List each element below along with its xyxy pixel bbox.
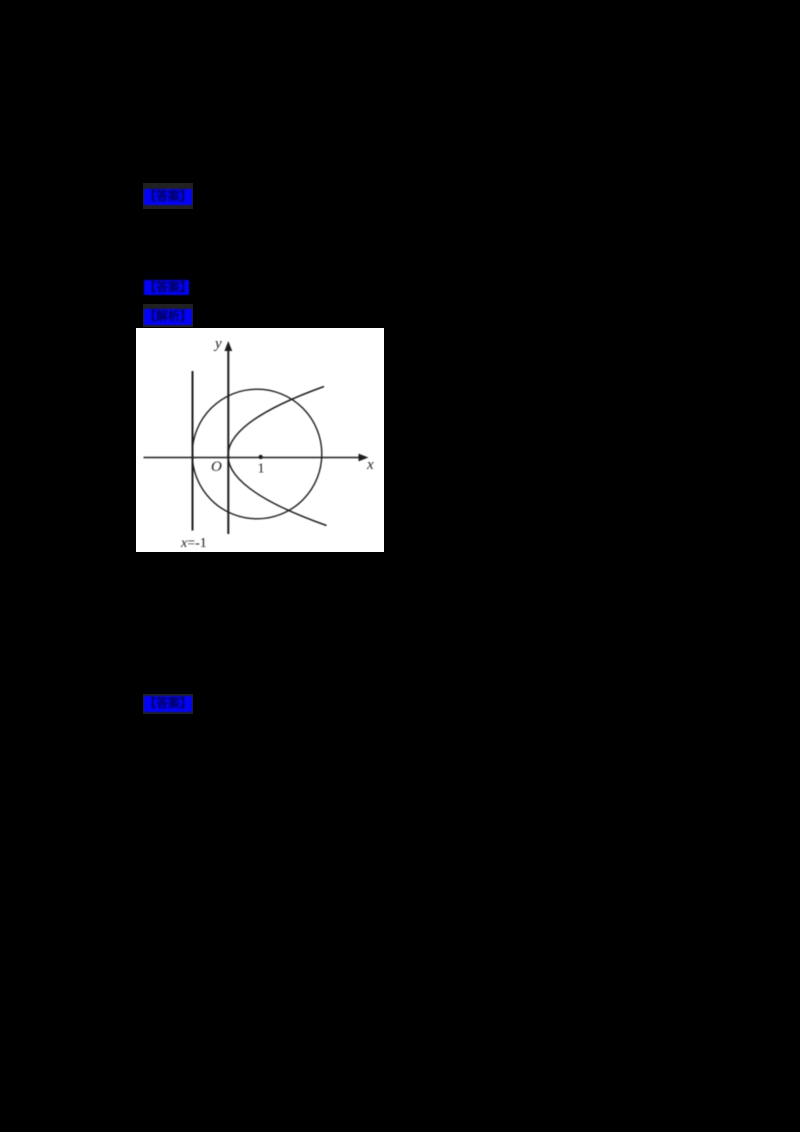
y-axis [227, 348, 229, 534]
answer label 1 [144, 189, 192, 205]
circle centered at focus (1,0) radius 2 [192, 389, 322, 519]
point at (1,0) [259, 455, 263, 459]
svg-text:x=-1: x=-1 [180, 536, 207, 551]
x-axis arrowhead [359, 454, 369, 462]
analysis label 3 [144, 309, 192, 325]
svg-text:x: x [366, 457, 374, 473]
directrix line x=-1 [192, 371, 194, 531]
svg-text:O: O [211, 459, 222, 475]
svg-text:y: y [213, 336, 222, 352]
parabola y^2=4x [228, 387, 327, 526]
gray backdrop label 4 [143, 694, 193, 714]
answer label 4 [144, 696, 192, 712]
svg-text:1: 1 [258, 462, 265, 477]
x-axis [144, 457, 362, 459]
answer label 2 [144, 280, 189, 295]
y-axis arrowhead [224, 341, 232, 351]
figure white box [136, 328, 384, 552]
gray backdrop label 3 [143, 304, 193, 327]
gray backdrop label 1 [143, 183, 193, 209]
